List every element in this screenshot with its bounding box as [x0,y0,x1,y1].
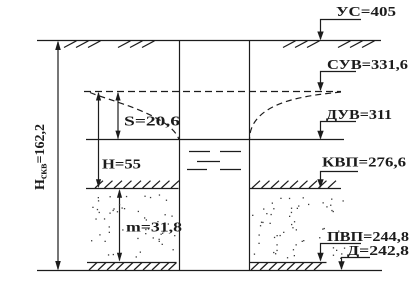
S drawdown arrow line [117,93,119,139]
leader PVP [321,244,362,261]
ground surface line [37,40,381,42]
dynamic water level line DUV [86,139,344,141]
sand dots left [91,194,176,257]
well casing right wall [249,41,251,271]
water symbol inside well [187,152,241,170]
depression curve left (dashed) [90,93,179,140]
well casing left wall [179,41,181,271]
arrowhead leader US [317,32,323,41]
leader KVP [321,172,359,188]
svg-text:H=55: H=55 [102,158,141,173]
arrowhead leader DUV [317,131,323,140]
ground hatch group 2 [118,41,155,48]
aquifer bottom band PVP left (two lines + hatch) [87,262,177,264]
H head arrow line [98,93,100,187]
svg-text:УС=405: УС=405 [336,5,396,20]
svg-text:Д=242,8: Д=242,8 [347,244,409,259]
depression curve right (dashed) [250,92,342,140]
arrowhead H down [96,179,101,188]
aquifer top line KVP left [86,188,179,190]
svg-text:S=20,6: S=20,6 [124,115,180,130]
svg-text:Нскв=162,2: Нскв=162,2 [33,124,50,190]
Hskv overall depth arrow line [57,42,59,269]
arrowhead leader KVP [317,179,323,188]
arrowhead S down [115,131,120,140]
leader DUV [321,122,357,139]
aquifer top line KVP right [249,188,341,190]
svg-text:КВП=276,6: КВП=276,6 [322,156,406,171]
arrowhead H up [96,92,101,101]
arrowhead m up [117,189,122,198]
svg-text:ПВП=244,8: ПВП=244,8 [327,230,409,245]
arrowhead S up [115,92,120,101]
static water level dashed line SUV [84,91,341,93]
ground hatch group 4 [338,41,375,48]
leader SUV [321,72,357,91]
leader D [342,258,371,270]
arrowhead Hskv down [55,261,61,271]
m thickness arrow line [119,191,121,261]
arrowhead leader PVP [317,253,323,262]
arrowhead Hskv up [55,41,61,51]
svg-text:СУВ=331,6: СУВ=331,6 [327,58,408,73]
arrowhead leader SUV [317,82,323,91]
arrowhead leader D [338,261,344,270]
KVP hatch right [252,181,336,188]
aquifer bottom band PVP right [250,262,327,264]
bottom line (well bottom / datum) [37,270,382,272]
arrowhead m down [117,253,122,262]
svg-text:m=31,8: m=31,8 [126,221,182,236]
KVP hatch left [95,181,179,188]
ground hatch group 3 [283,41,320,48]
svg-text:ДУВ=311: ДУВ=311 [326,108,392,123]
leader US [321,20,362,40]
ground hatch group 1 [64,41,101,48]
sand dots right [252,197,345,259]
